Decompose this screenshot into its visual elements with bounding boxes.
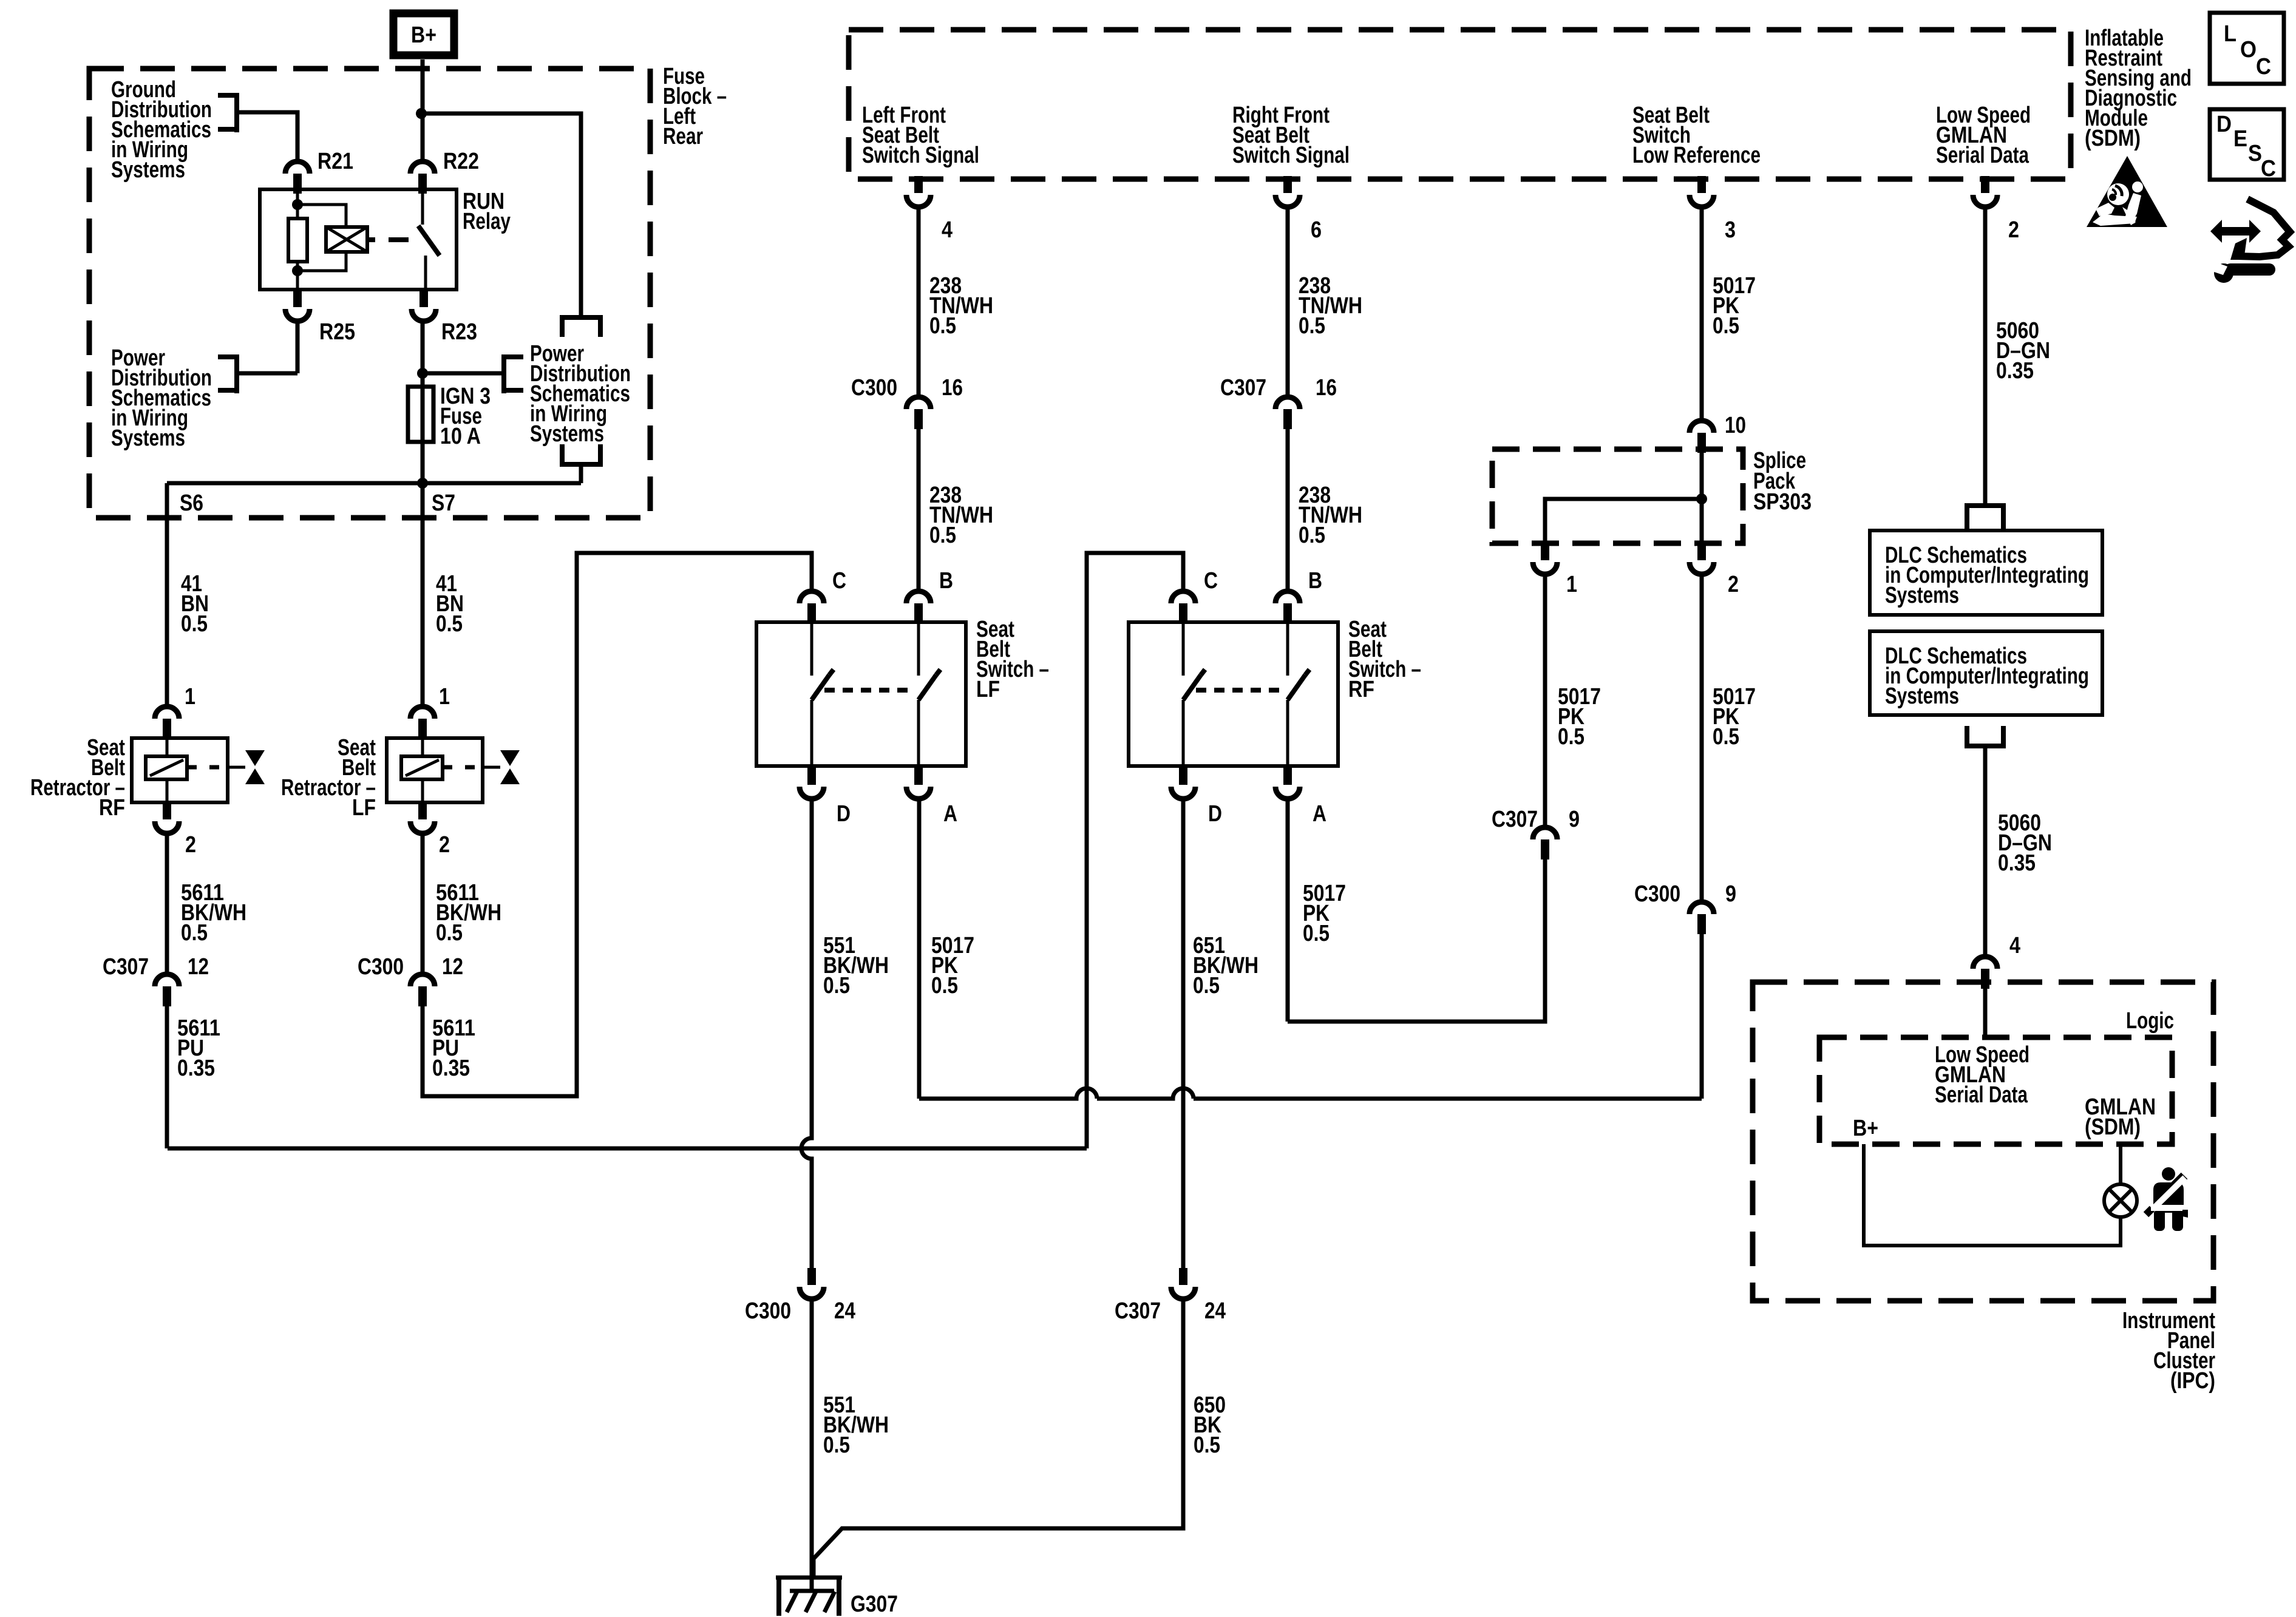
svg-text:0.35: 0.35 (177, 1056, 215, 1081)
svg-text:S6: S6 (180, 490, 203, 516)
svg-text:0.5: 0.5 (931, 973, 958, 998)
svg-text:0.5: 0.5 (1299, 313, 1325, 339)
svg-text:16: 16 (942, 375, 963, 401)
svg-text:24: 24 (834, 1298, 855, 1324)
svg-text:2: 2 (439, 832, 450, 858)
svg-text:Serial Data: Serial Data (1936, 143, 2029, 168)
svg-text:LF: LF (976, 677, 1000, 702)
svg-text:1: 1 (439, 684, 450, 710)
svg-text:10: 10 (1725, 413, 1746, 438)
svg-text:0.5: 0.5 (436, 611, 463, 637)
svg-text:A: A (943, 801, 957, 827)
svg-text:9: 9 (1725, 881, 1736, 907)
svg-text:Switch Signal: Switch Signal (1232, 143, 1350, 168)
svg-text:2: 2 (2008, 217, 2019, 243)
svg-text:C307: C307 (1220, 375, 1266, 401)
svg-text:0.5: 0.5 (1713, 313, 1739, 339)
svg-text:0.5: 0.5 (823, 973, 850, 998)
svg-text:(SDM): (SDM) (2085, 126, 2141, 151)
svg-text:Serial Data: Serial Data (1935, 1082, 2028, 1108)
svg-text:16: 16 (1316, 375, 1337, 401)
svg-text:R23: R23 (441, 319, 477, 345)
svg-text:9: 9 (1569, 807, 1580, 832)
svg-text:C307: C307 (1115, 1298, 1161, 1324)
svg-text:Systems: Systems (1885, 583, 1959, 608)
svg-text:S7: S7 (432, 490, 455, 516)
svg-text:B+: B+ (1853, 1116, 1878, 1141)
svg-text:C: C (2256, 54, 2271, 80)
svg-text:Relay: Relay (463, 209, 511, 234)
svg-text:0.35: 0.35 (1996, 358, 2034, 384)
svg-text:C300: C300 (358, 954, 404, 980)
svg-text:0.5: 0.5 (436, 920, 463, 946)
svg-text:C: C (832, 568, 846, 594)
svg-text:0.35: 0.35 (1998, 850, 2036, 876)
svg-text:10 A: 10 A (440, 424, 481, 449)
svg-text:(SDM): (SDM) (2085, 1114, 2141, 1140)
svg-text:0.5: 0.5 (823, 1432, 850, 1458)
svg-text:C300: C300 (1634, 881, 1680, 907)
svg-text:A: A (1313, 801, 1326, 827)
svg-text:R21: R21 (318, 149, 353, 174)
svg-text:Systems: Systems (111, 425, 185, 451)
svg-text:0.35: 0.35 (432, 1056, 470, 1081)
svg-text:B: B (1308, 568, 1322, 594)
svg-text:C: C (1204, 568, 1218, 594)
svg-text:C: C (2261, 156, 2276, 181)
svg-text:1: 1 (185, 684, 195, 710)
svg-text:24: 24 (1204, 1298, 1226, 1324)
svg-text:D: D (837, 801, 851, 827)
svg-text:Rear: Rear (663, 124, 703, 149)
svg-text:2: 2 (1728, 572, 1739, 597)
svg-text:0.5: 0.5 (929, 523, 956, 548)
svg-text:O: O (2240, 37, 2257, 63)
svg-text:Systems: Systems (530, 421, 604, 447)
svg-text:1: 1 (1566, 572, 1577, 597)
svg-text:RF: RF (1348, 677, 1374, 702)
svg-text:C307: C307 (1492, 807, 1538, 832)
svg-text:12: 12 (188, 954, 209, 980)
svg-text:LF: LF (352, 795, 376, 821)
svg-text:C300: C300 (745, 1298, 791, 1324)
svg-text:0.5: 0.5 (1558, 724, 1584, 750)
svg-text:0.5: 0.5 (181, 920, 208, 946)
svg-text:B: B (939, 568, 953, 594)
svg-text:0.5: 0.5 (1713, 724, 1739, 750)
svg-text:E: E (2233, 126, 2247, 152)
svg-text:(IPC): (IPC) (2170, 1368, 2215, 1394)
svg-text:0.5: 0.5 (1299, 523, 1325, 548)
svg-text:3: 3 (1725, 217, 1736, 243)
svg-text:0.5: 0.5 (1193, 973, 1220, 998)
svg-text:0.5: 0.5 (1303, 921, 1330, 946)
svg-text:R25: R25 (319, 319, 355, 345)
svg-text:C300: C300 (851, 375, 897, 401)
svg-text:RF: RF (99, 795, 125, 821)
svg-text:Switch Signal: Switch Signal (862, 143, 979, 168)
svg-text:D: D (1208, 801, 1222, 827)
svg-text:4: 4 (942, 217, 953, 243)
svg-text:Systems: Systems (1885, 683, 1959, 709)
svg-text:D: D (2216, 112, 2232, 137)
svg-text:L: L (2224, 21, 2237, 47)
svg-text:0.5: 0.5 (1194, 1432, 1220, 1458)
svg-text:0.5: 0.5 (181, 611, 208, 637)
svg-text:S: S (2248, 141, 2262, 166)
svg-text:4: 4 (2009, 933, 2020, 958)
svg-text:G307: G307 (851, 1592, 898, 1617)
svg-text:B+: B+ (411, 22, 436, 48)
svg-text:C307: C307 (103, 954, 149, 980)
svg-text:SP303: SP303 (1753, 489, 1812, 515)
svg-text:Systems: Systems (111, 157, 185, 183)
svg-text:12: 12 (442, 954, 463, 980)
svg-text:Logic: Logic (2126, 1008, 2174, 1034)
svg-text:Low Reference: Low Reference (1632, 143, 1761, 168)
svg-text:R22: R22 (443, 149, 479, 174)
svg-text:2: 2 (185, 832, 196, 858)
svg-text:0.5: 0.5 (929, 313, 956, 339)
svg-text:6: 6 (1311, 217, 1322, 243)
